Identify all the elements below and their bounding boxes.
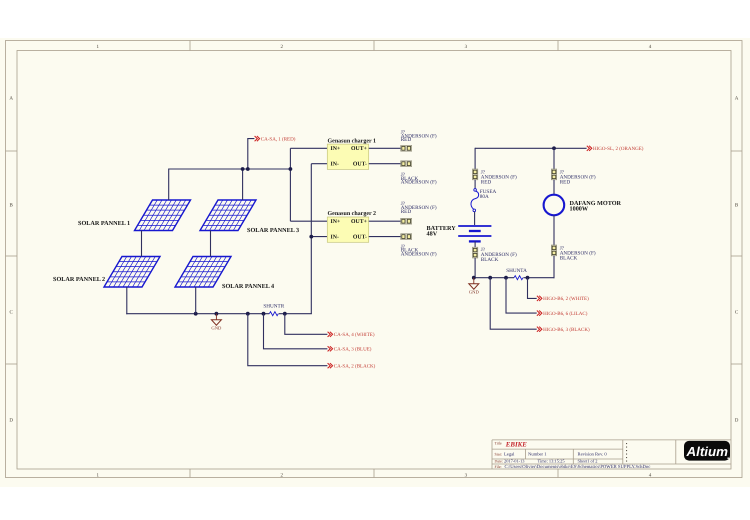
svg-text:GND: GND — [469, 290, 480, 295]
Altium logo — [684, 441, 730, 461]
port HIGO-B6, 6 (LILAC) — [537, 311, 588, 317]
label J? BLACK ANDERSON (F) — [401, 244, 437, 258]
wire battery branch lower — [474, 258, 476, 278]
svg-text:2017-01-13: 2017-01-13 — [504, 459, 525, 464]
svg-text:Genasun charger 2: Genasun charger 2 — [328, 210, 377, 217]
svg-text:CA-SA, 4 (WHITE): CA-SA, 4 (WHITE) — [334, 332, 375, 338]
wire panel3 top — [242, 169, 244, 200]
connector J? anderson black (battery -) — [472, 247, 477, 258]
wire panel2 bottom — [126, 287, 128, 314]
node gnd tap — [215, 312, 219, 316]
svg-text:RED: RED — [401, 137, 412, 143]
svg-text:C:\Users\Olivier\Documents\ebi: C:\Users\Olivier\Documents\ebike\ES\Sche… — [505, 464, 651, 470]
svg-text:SOLAR PANNEL 2: SOLAR PANNEL 2 — [53, 276, 105, 283]
svg-text:File:: File: — [495, 465, 502, 469]
wire panel3 bottom to panel4 — [210, 231, 212, 257]
wire to port CA-SA 2 — [248, 314, 328, 366]
wire bottom bus left part — [126, 313, 269, 315]
svg-text:HIGO-B6, 2 (WHITE): HIGO-B6, 2 (WHITE) — [543, 296, 589, 302]
wire battery to connector — [474, 241, 476, 247]
wire connector to motor — [553, 180, 555, 195]
svg-text:CA-SA, 1 (RED): CA-SA, 1 (RED) — [261, 136, 296, 142]
wire chargers IN- vertical — [310, 164, 312, 314]
port HIGO-B6, 3 (BLACK) — [537, 327, 590, 333]
wire to port CA-SA 3 — [264, 314, 328, 349]
port HIGO-SL, 2 (ORANGE) — [587, 146, 644, 152]
svg-text:HIGO-B6, 6 (LILAC): HIGO-B6, 6 (LILAC) — [543, 311, 588, 317]
svg-text:GND: GND — [211, 326, 222, 331]
wire charger2 OUT- — [369, 236, 401, 238]
svg-text:D: D — [735, 417, 739, 423]
svg-text:CA-SA, 3 (BLUE): CA-SA, 3 (BLUE) — [334, 347, 372, 353]
node HIGO-B6 3 tap — [488, 276, 492, 280]
label J? ANDERSON (F) RED — [401, 130, 437, 144]
node battery gnd — [472, 276, 476, 280]
svg-text:OUT+: OUT+ — [351, 219, 367, 225]
solar panel PV3 — [200, 200, 256, 231]
svg-text:Revision Rev. 0: Revision Rev. 0 — [578, 452, 608, 457]
svg-text:IN-: IN- — [331, 235, 339, 241]
label J? ANDERSON (F) BLACK — [560, 245, 596, 261]
svg-text:Time: 13:15:25: Time: 13:15:25 — [538, 459, 566, 464]
label J? ANDERSON (F) BLACK — [481, 247, 517, 263]
wire motor to connector — [553, 215, 555, 245]
svg-text:CA-SA, 2 (BLACK): CA-SA, 2 (BLACK) — [334, 364, 376, 370]
label J? ANDERSON (F) RED — [560, 170, 596, 186]
node HIGO-B6 2 tap — [526, 276, 530, 280]
shunt resistor SHUNTR — [269, 312, 278, 316]
wire top bus — [169, 168, 291, 170]
connector J? anderson red (battery +) — [472, 169, 477, 180]
svg-text:D: D — [9, 417, 13, 423]
label BATTERY 48V — [427, 225, 457, 238]
title block texts — [495, 441, 651, 470]
svg-text:ANDERSON (F): ANDERSON (F) — [401, 180, 437, 186]
svg-text:80A: 80A — [480, 194, 489, 200]
connector J? anderson black (charger1 OUT-) — [401, 161, 412, 167]
wire to port CA-SA 1 — [248, 139, 255, 169]
wire bottom bus right circuit — [475, 277, 514, 279]
Genasun charger 2 U2 — [327, 210, 376, 242]
battery BT? 48V — [458, 226, 491, 241]
solar panel PV2 — [104, 257, 160, 288]
svg-text:IN+: IN+ — [331, 219, 341, 225]
svg-text:RED: RED — [481, 180, 492, 186]
wire to port HIGO-B6 2 — [528, 278, 537, 299]
title block asterisk column — [626, 443, 627, 462]
solar panel PV4 — [175, 257, 231, 288]
connector J? anderson red (charger1 OUT+) — [401, 145, 412, 151]
svg-text:Title: Title — [495, 441, 502, 445]
port HIGO-B6, 2 (WHITE) — [537, 296, 589, 302]
shunt resistor SHUNTA — [514, 276, 523, 280]
svg-text:IN+: IN+ — [331, 146, 341, 152]
node HIGO-B6 6 tap — [504, 276, 508, 280]
label J? ANDERSON (F) RED — [481, 170, 517, 186]
node panel3 tap — [241, 167, 245, 171]
node IN+ bus junction — [289, 167, 293, 171]
solar panel PV1 — [135, 200, 191, 231]
connector J? anderson black (charger2 OUT-) — [401, 234, 412, 240]
node CA-SA4 tap — [283, 312, 287, 316]
wire to port HIGO-B6 3 — [490, 278, 537, 330]
svg-text:A: A — [9, 95, 13, 101]
label J? BLACK ANDERSON (F) — [401, 172, 437, 186]
svg-text:IN-: IN- — [331, 162, 339, 168]
wire battery branch upper — [474, 148, 476, 169]
svg-text:Genasun charger 1: Genasun charger 1 — [328, 137, 377, 144]
wire panel1 top — [168, 169, 170, 201]
svg-text:OUT-: OUT- — [353, 235, 367, 241]
node panel4 junction — [194, 312, 198, 316]
wire chargers IN+ vertical — [289, 148, 291, 221]
svg-text:BLACK: BLACK — [560, 255, 578, 261]
wire panel4 bottom — [195, 287, 197, 314]
node CA-SA1 tap — [246, 167, 250, 171]
fuse F? FUSEA 80A — [471, 189, 479, 212]
node motor branch tap — [552, 146, 556, 150]
port CA-SA, 3 (BLUE) — [328, 346, 372, 352]
svg-text:HIGO-SL, 2 (ORANGE): HIGO-SL, 2 (ORANGE) — [593, 146, 644, 152]
svg-text:Sheet1 of 2: Sheet1 of 2 — [578, 459, 598, 464]
label DAFANG MOTOR 1000W — [570, 200, 622, 213]
wire motor branch upper — [553, 148, 555, 169]
wire panel1 bottom to panel2 — [141, 231, 143, 257]
svg-text:HIGO-B6, 3 (BLACK): HIGO-B6, 3 (BLACK) — [543, 327, 590, 333]
wire charger2 OUT+ — [369, 220, 401, 222]
wire to port CA-SA 4 — [285, 314, 328, 335]
svg-text:A: A — [735, 95, 739, 101]
node charger2 IN- junction — [309, 235, 313, 239]
svg-text:SOLAR PANNEL 4: SOLAR PANNEL 4 — [222, 283, 274, 290]
wire to port HIGO-B6 6 — [506, 278, 537, 313]
svg-text:Legal: Legal — [504, 452, 515, 457]
svg-text:EBIKE: EBIKE — [505, 441, 527, 448]
svg-text:OUT-: OUT- — [353, 162, 367, 168]
label FUSEA 80A — [480, 189, 497, 200]
ground — [211, 314, 222, 331]
port CA-SA, 2 (BLACK) — [328, 363, 376, 369]
ground — [469, 278, 480, 295]
node CA-SA3 tap — [262, 312, 266, 316]
wire to fuse — [474, 180, 476, 189]
Genasun charger 1 U1 — [327, 137, 376, 169]
svg-text:48V: 48V — [427, 231, 438, 238]
svg-text:RED: RED — [560, 180, 571, 186]
svg-text:ANDERSON (F): ANDERSON (F) — [401, 251, 437, 257]
label J? ANDERSON (F) RED — [401, 201, 437, 215]
wire charger1 OUT+ — [369, 147, 401, 149]
wire charger1 IN- stub — [311, 163, 327, 165]
svg-text:Size:: Size: — [495, 452, 503, 456]
svg-text:SHUNTA: SHUNTA — [506, 268, 527, 274]
svg-text:RED: RED — [401, 209, 412, 215]
wire top bus right — [475, 147, 586, 149]
wire charger1 OUT- — [369, 163, 401, 165]
wire charger2 IN+ stub — [290, 220, 327, 222]
svg-text:Altium: Altium — [685, 444, 728, 459]
svg-text:BLACK: BLACK — [481, 257, 499, 263]
svg-text:OUT+: OUT+ — [351, 146, 367, 152]
motor M? DAFANG 1000W — [544, 195, 565, 216]
wire motor branch lower — [553, 256, 555, 278]
svg-text:SHUNTR: SHUNTR — [263, 304, 284, 310]
wire charger1 IN+ stub — [290, 147, 327, 149]
connector J? anderson red (charger2 OUT+) — [401, 218, 412, 224]
svg-text:Date:: Date: — [495, 460, 503, 464]
wire charger2 IN- stub — [311, 236, 327, 238]
svg-text:Number 1: Number 1 — [528, 452, 547, 457]
wire bottom bus right part — [279, 313, 312, 315]
port CA-SA, 4 (WHITE) — [328, 332, 375, 338]
title block — [492, 440, 731, 469]
svg-text:SOLAR PANNEL 3: SOLAR PANNEL 3 — [247, 227, 299, 234]
port CA-SA, 1 (RED) — [255, 136, 296, 142]
connector J? anderson red (motor +) — [551, 169, 556, 180]
connector J? anderson black (motor -) — [551, 245, 556, 256]
wire fuse to battery — [474, 212, 476, 225]
node CA-SA2 tap — [246, 312, 250, 316]
svg-text:SOLAR PANNEL 1: SOLAR PANNEL 1 — [78, 220, 130, 227]
svg-text:1000W: 1000W — [570, 206, 589, 213]
